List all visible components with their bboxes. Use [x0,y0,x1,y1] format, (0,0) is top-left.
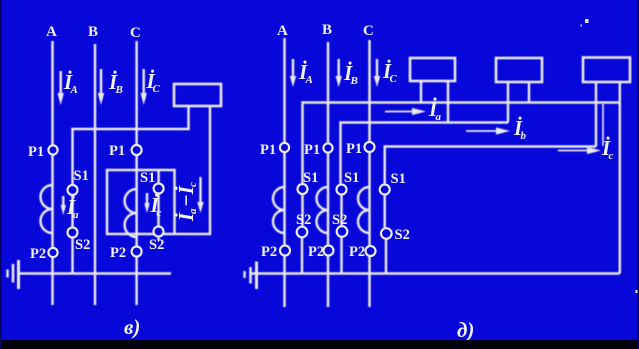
secondary winding wires S1-S2 [301,194,303,227]
svg-text:−İ: −İ [174,185,198,207]
left: P1 A [48,145,57,154]
svg-text:A: A [70,84,78,96]
ground bus [19,272,171,274]
svg-text:P2: P2 [261,244,277,260]
S2 down wires [301,238,303,274]
svg-text:B: B [322,22,332,38]
svg-text:P1: P1 [346,141,362,157]
svg-text:P2: P2 [349,244,365,260]
current arrow IA (right) [292,59,294,81]
arrow Ia-Ic vertical [199,177,201,205]
current arrow IC (left) [142,69,144,99]
svg-text:c: c [609,150,614,162]
wire phase C (left) [135,41,137,305]
svg-text:P1: P1 [28,144,44,160]
svg-text:P1: P1 [109,143,125,159]
CT TA1 primary winding arcs [41,185,53,233]
wire phase C (right) [368,40,370,307]
svg-text:C: C [390,73,398,85]
bus arrowheads (right) [412,108,426,115]
svg-text:P2: P2 [308,244,324,260]
svg-text:b: b [521,130,527,142]
svg-text:в): в) [124,315,140,339]
box3 right wire / right side vertical [619,82,621,274]
bus arrow shafts [385,111,417,113]
winding A secondary wire [71,195,73,228]
right: P2 A,B,C [280,246,290,256]
svg-text:A: A [46,24,57,40]
wire stub S2C down [157,237,159,241]
right: S1 A,B,C [298,184,308,194]
svg-text:S2: S2 [332,212,347,228]
svg-text:S2: S2 [395,227,410,243]
short vertical connector [602,104,604,146]
box1 left wire [420,81,422,103]
svg-text:c: c [187,182,199,187]
ammeter PA2 [410,58,455,81]
svg-text:P2: P2 [30,246,46,262]
winding C secondary wire [157,194,159,227]
svg-text:д): д) [457,318,474,342]
svg-text:C: C [153,83,161,95]
ground symbol left [17,260,20,289]
svg-text:c: c [157,207,162,219]
svg-text:A: A [305,74,313,86]
CT TA4 primary winding arcs [317,187,329,233]
current arrow IA (left) [59,71,61,99]
left: S1 C [154,184,164,194]
box1 right wire [447,81,449,123]
svg-text:P1: P1 [304,142,320,158]
left: S1 A [68,185,78,195]
box2 right wire [528,82,530,103]
left: P1 C [132,145,142,155]
svg-text:C: C [363,23,374,39]
Ia Ic small arrowheads [61,205,66,215]
svg-text:S1: S1 [391,171,406,187]
left: S2 A [68,228,78,238]
box2 left wire [507,82,509,123]
wire phase B (right) [327,42,329,307]
svg-text:S1: S1 [140,170,155,186]
svg-text:S2: S2 [296,212,311,228]
arrowheads [58,76,602,215]
svg-text:S1: S1 [303,170,318,186]
arrow Ia small [62,196,64,209]
wire phase A (left) [51,41,53,305]
Ia bus [303,103,620,185]
ammeter PA4 [583,58,630,83]
circles (terminals) [48,142,391,257]
Ib bus [341,123,509,185]
current arrow IB (right) [337,59,339,81]
arrow Ic small [146,193,148,207]
specks [585,19,589,23]
CT TA2 primary winding arcs [125,189,137,237]
svg-text:S1: S1 [344,170,359,186]
svg-text:S1: S1 [74,168,89,184]
svg-text:a: a [187,208,199,214]
current arrow IC (right) [376,59,378,81]
wire stub S1C up [157,170,159,184]
svg-text:P1: P1 [260,142,276,158]
svg-text:a: a [436,111,442,123]
svg-text:S2: S2 [75,237,90,253]
ammeter PA1 [174,84,221,106]
current label Ia-Ic (rotated) [174,182,199,222]
left: P2 C [132,247,142,257]
box3 left wire [595,82,597,147]
right: P1 A,B,C [280,143,289,152]
left: P2 A [48,248,57,257]
ammeter PA3 [496,58,542,82]
Ia-Ic arrowhead [197,202,203,213]
bottom bus [250,272,620,274]
wire S1A up to bus [73,106,189,185]
svg-text:B: B [350,75,358,87]
svg-text:B: B [115,84,123,96]
dark edges [0,340,639,349]
right: S2 A,B,C [297,227,308,238]
left diagram phase current arrowheads (down) [58,93,64,105]
right diagram phase current arrowheads [290,76,296,87]
svg-text:C: C [130,25,141,41]
Ic bus [385,147,596,185]
wire phase A (right) [283,38,285,307]
svg-text:a: a [73,209,79,221]
svg-text:A: A [277,23,288,39]
ground symbol right [255,262,258,290]
wire S2A down to ground bus [71,238,73,274]
wire phase B (left) [94,44,96,305]
CT TA3 primary winding arcs [273,187,285,233]
svg-text:B: B [88,24,98,40]
current arrow IB (left) [100,69,102,99]
svg-text:S2: S2 [149,237,164,253]
CT TA5 primary winding arcs [358,187,370,233]
wire ammeter PA1 right terminal to S2 loop of TA2 [107,106,210,234]
svg-text:P2: P2 [110,245,126,261]
left: S2 C [154,227,164,237]
